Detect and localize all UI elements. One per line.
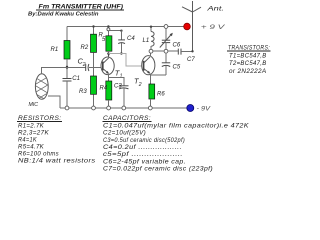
microphone MIC — [26, 72, 56, 108]
wire T2 emitter down — [149, 74, 151, 84]
svg-text:- 9V: - 9V — [197, 105, 212, 112]
svg-text:R6: R6 — [157, 91, 165, 97]
node L1 bottom (open) — [149, 49, 153, 53]
svg-text:C6=2-45pf variable cap.: C6=2-45pf variable cap. — [103, 159, 186, 165]
svg-text:R5=4.7K: R5=4.7K — [18, 144, 45, 150]
svg-text:C1: C1 — [72, 76, 80, 82]
wire R1 bottom — [66, 59, 68, 68]
node C6 bottom (open) — [164, 49, 168, 53]
wire R4 bottom — [108, 100, 110, 108]
svg-text:T2=BC547,B: T2=BC547,B — [229, 61, 267, 67]
svg-text:C7=0.022pf ceramic disc (223pf: C7=0.022pf ceramic disc (223pf) — [103, 166, 213, 172]
wire R1 top — [66, 27, 68, 41]
parts list transistors — [227, 45, 271, 75]
transistor T2 — [134, 56, 155, 88]
title — [36, 3, 124, 10]
node -9V terminal (blue) — [187, 105, 194, 112]
node +9V terminal (red) — [184, 23, 191, 30]
wire R5 node to C4 — [110, 30, 122, 32]
wire T2 collector up — [150, 53, 152, 57]
svg-text:2: 2 — [82, 62, 86, 68]
inductor L1 — [143, 27, 155, 50]
svg-text:2: 2 — [138, 82, 142, 88]
svg-text:Fm TRANSMITTER (UHF): Fm TRANSMITTER (UHF) — [39, 3, 124, 10]
parts list capacitors — [103, 116, 250, 172]
node R5 rail junction circle — [107, 28, 110, 31]
wire base line node A to C2 — [67, 67, 86, 69]
svg-text:C2=10uf(25V): C2=10uf(25V) — [103, 131, 146, 137]
wire mic right to ground rail — [48, 96, 60, 108]
wire top +9V rail — [67, 26, 184, 28]
svg-text:R1: R1 — [51, 47, 59, 53]
node R3 ground (open) — [92, 106, 96, 110]
node C3 ground (open) — [122, 106, 126, 110]
node R5 rail junction — [107, 25, 109, 27]
svg-text:R2,3=27K: R2,3=27K — [18, 130, 50, 136]
node C4 top junction — [120, 30, 122, 32]
svg-text:C7: C7 — [187, 57, 195, 63]
resistor R3 — [91, 76, 97, 94]
node L1 rail junction — [150, 26, 152, 28]
svg-text:Ant.: Ant. — [206, 7, 224, 13]
resistor R5 — [106, 36, 112, 51]
node R2 rail junction — [92, 25, 94, 27]
wire C7 to antenna — [181, 50, 193, 52]
wire C5 bottom to T2 emitter — [150, 74, 166, 76]
transistor T1 — [101, 57, 123, 79]
svg-text:or 2N2222A: or 2N2222A — [229, 69, 267, 75]
capacitor C5 — [162, 53, 181, 75]
node A junction R1/C1/C2 — [66, 66, 68, 69]
svg-text:C1=0.047uf(mylar film capacito: C1=0.047uf(mylar film capacitor)i.e 472K — [103, 124, 250, 130]
node R4 ground (open) — [107, 106, 111, 110]
svg-text:By:David Kwaku Celestin: By:David Kwaku Celestin — [28, 12, 99, 18]
resistor R2 — [91, 34, 97, 52]
node antenna junction — [191, 50, 193, 52]
svg-text:+ 9 V: + 9 V — [201, 24, 226, 31]
svg-text:c5=5pf ....................: c5=5pf .................... — [103, 152, 183, 158]
svg-text:MIC: MIC — [29, 102, 39, 108]
svg-text:C3: C3 — [114, 83, 122, 89]
svg-text:C3=0.5uf ceramic disc(502pf): C3=0.5uf ceramic disc(502pf) — [103, 138, 185, 144]
wire tank node row — [153, 50, 164, 52]
svg-text:R3: R3 — [79, 89, 87, 95]
svg-text:R2: R2 — [81, 45, 89, 51]
wire T1 emitter down — [108, 74, 110, 81]
wire R2 top — [93, 27, 95, 35]
wire emitter to C3 — [109, 77, 124, 85]
resistor R4 — [106, 81, 112, 100]
svg-text:L1: L1 — [143, 38, 150, 44]
capacitor C3 — [114, 83, 129, 108]
svg-text:C5: C5 — [173, 64, 181, 70]
wire R2 bottom through base line to R3 — [93, 52, 95, 76]
svg-text:C6: C6 — [173, 42, 181, 48]
node C4 bottom junction — [120, 52, 122, 54]
capacitor C2 — [78, 57, 89, 72]
wire ground rail — [60, 107, 187, 109]
capacitor C4 — [118, 31, 135, 54]
svg-text:R4: R4 — [100, 86, 108, 92]
capacitor C7 — [178, 49, 195, 63]
node C1 ground (open) — [65, 106, 69, 110]
wire R6 bottom — [150, 99, 152, 108]
resistor R1 — [64, 41, 70, 60]
wire T1 collector to T2 base (gray link) — [109, 54, 142, 66]
svg-text:1: 1 — [120, 74, 123, 80]
wire R3 bottom — [93, 94, 95, 108]
svg-text:R6=100 ohms: R6=100 ohms — [18, 151, 59, 157]
svg-text:R4=1K: R4=1K — [18, 137, 38, 143]
svg-text:R1=2.7K: R1=2.7K — [18, 123, 45, 129]
capacitor C6 (variable) — [160, 28, 181, 49]
node C6 rail junction (open) — [164, 25, 168, 29]
wire R5 top — [107, 27, 109, 29]
parts list resistors — [17, 116, 96, 164]
wire C2 to T1 base — [89, 67, 103, 69]
resistor R6 — [149, 84, 155, 99]
node R6 ground (open) — [148, 106, 152, 110]
capacitor C1 — [63, 68, 80, 109]
wire R5 bottom with arrow — [108, 51, 110, 57]
svg-text:C4: C4 — [127, 36, 135, 42]
antenna — [182, 1, 201, 51]
wire mic top to node A — [42, 68, 68, 75]
svg-text:NB:1/4 watt resistors: NB:1/4 watt resistors — [18, 158, 96, 164]
svg-text:T1=BC547,B: T1=BC547,B — [229, 53, 267, 59]
svg-text:C4=0.2uf ..................: C4=0.2uf .................. — [103, 145, 182, 151]
